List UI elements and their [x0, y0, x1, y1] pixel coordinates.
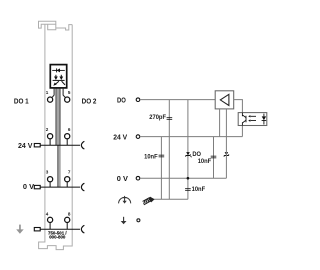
- 0V row spring contact: [81, 183, 84, 191]
- mounting arrow (gray): [16, 225, 24, 234]
- wire to 24V line: [241, 126, 243, 137]
- wire 10nF right branch: [213, 137, 215, 179]
- wire U2 supply right: [225, 109, 227, 178]
- wire 24V line: [140, 136, 242, 138]
- power jumper plug 0V: [34, 185, 40, 188]
- LED in U3: [262, 114, 267, 125]
- wire U2 output: [234, 100, 243, 113]
- svg-text:7: 7: [68, 170, 71, 175]
- isolation opto box U3: [238, 113, 267, 126]
- wire 270pF branch: [168, 100, 170, 200]
- clamp circle 2: [48, 134, 53, 139]
- svg-text:1: 1: [46, 90, 49, 95]
- svg-text:5: 5: [68, 90, 71, 95]
- wire 0V line: [140, 177, 226, 179]
- driver op-amp U2: [215, 91, 234, 109]
- svg-text:4: 4: [46, 211, 49, 216]
- clamp circle 6: [65, 134, 70, 139]
- clamp circle 3: [48, 177, 53, 182]
- light arrows in U3: [251, 116, 256, 120]
- zener D1 with label DO: [186, 152, 190, 155]
- svg-text:000-800: 000-800: [49, 234, 66, 239]
- capacitor C1 270pF: [167, 118, 173, 120]
- wire 10nF left branch: [160, 137, 162, 200]
- module outline (terminal block body): [39, 21, 73, 249]
- svg-text:DO 2: DO 2: [82, 98, 97, 106]
- row4 wire: [40, 228, 80, 230]
- clamp circle 5: [65, 97, 70, 102]
- power jumper plug 24V: [34, 144, 40, 147]
- svg-text:8: 8: [68, 211, 71, 216]
- terminal DO: [136, 98, 140, 102]
- svg-text:3: 3: [46, 170, 49, 175]
- svg-text:DO 1: DO 1: [14, 98, 29, 106]
- svg-text:24 V: 24 V: [113, 133, 127, 141]
- clamp circle 8: [65, 217, 70, 222]
- svg-text:24 V: 24 V: [18, 141, 33, 150]
- row4 spring contact: [81, 225, 84, 233]
- wire pin5 hook: [63, 88, 65, 97]
- svg-text:DO: DO: [117, 97, 126, 105]
- 24V row spring contact: [81, 141, 84, 149]
- wire DO line: [140, 99, 215, 101]
- legend terminal circle: [137, 219, 140, 222]
- capacitor C2 10nF: [159, 155, 165, 157]
- stub 3: [49, 182, 51, 187]
- terminal 0V: [136, 176, 140, 180]
- clamp circle 4: [48, 217, 53, 222]
- stub 6: [66, 139, 68, 145]
- terminal 24V: [136, 135, 140, 139]
- chassis ground symbol: [143, 197, 151, 204]
- stub 7: [66, 182, 68, 187]
- capacitor C3 10nF: [185, 189, 191, 191]
- legend ground arrow: [123, 217, 125, 222]
- stub 8: [66, 223, 68, 230]
- wire pin1 hook: [52, 88, 54, 97]
- stub 4: [49, 223, 51, 230]
- suppressor diode inside U1: [52, 69, 65, 71]
- clamp circle 7: [65, 177, 70, 182]
- svg-text:2: 2: [46, 127, 49, 132]
- legend power jumper symbol: [119, 196, 131, 204]
- junction node: [187, 177, 190, 180]
- svg-text:0 V: 0 V: [23, 182, 34, 191]
- wire zener branch: [187, 100, 189, 200]
- zener D2: [225, 152, 229, 155]
- internal power bus (gray column): [56, 88, 60, 145]
- wire U2 supply left: [219, 109, 221, 137]
- power jumper plug row4: [34, 228, 40, 231]
- wire chassis line: [153, 198, 188, 200]
- svg-text:10nF: 10nF: [192, 187, 206, 193]
- capacitor C4 10nF: [211, 156, 217, 158]
- svg-text:0 V: 0 V: [117, 174, 128, 183]
- svg-text:DO: DO: [192, 151, 201, 158]
- svg-text:10nF: 10nF: [144, 154, 158, 160]
- 0V row wire: [40, 186, 80, 188]
- clamp circle 1: [48, 97, 53, 102]
- svg-text:6: 6: [68, 127, 71, 132]
- phototransistor in U3: [242, 113, 246, 126]
- opto LED pair inside U1: [53, 79, 65, 81]
- svg-text:270pF: 270pF: [149, 115, 166, 121]
- svg-text:10nF: 10nF: [198, 159, 212, 165]
- 24V row wire: [40, 144, 80, 146]
- stub 2: [49, 139, 51, 145]
- optocoupler box U1: [50, 65, 66, 88]
